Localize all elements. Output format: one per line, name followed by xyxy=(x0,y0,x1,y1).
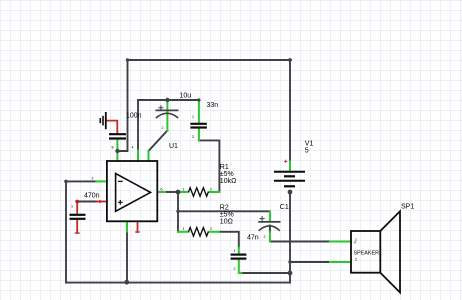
svg-text:1: 1 xyxy=(71,205,73,209)
svg-text:10Ω: 10Ω xyxy=(220,218,233,225)
svg-text:100n: 100n xyxy=(126,113,142,120)
svg-text:10u: 10u xyxy=(180,93,192,100)
svg-text:2: 2 xyxy=(92,177,94,181)
svg-text:SP1: SP1 xyxy=(401,204,414,211)
svg-text:6: 6 xyxy=(161,188,163,192)
svg-text:470n: 470n xyxy=(84,193,100,200)
svg-text:1: 1 xyxy=(183,188,185,192)
svg-text:V1: V1 xyxy=(305,140,314,147)
svg-text:33n: 33n xyxy=(207,102,219,109)
svg-text:2: 2 xyxy=(355,258,357,262)
svg-text:2: 2 xyxy=(264,235,266,239)
svg-text:1: 1 xyxy=(192,115,194,119)
svg-text:U1: U1 xyxy=(169,143,178,150)
svg-text:R1: R1 xyxy=(220,164,229,171)
svg-text:10kΩ: 10kΩ xyxy=(220,178,237,185)
svg-text:2: 2 xyxy=(234,267,236,271)
svg-text:47n: 47n xyxy=(247,235,259,242)
svg-text:4: 4 xyxy=(132,146,134,150)
svg-text:2: 2 xyxy=(192,135,194,139)
svg-text:2: 2 xyxy=(210,227,212,231)
svg-text:1: 1 xyxy=(234,249,236,253)
svg-text:1: 1 xyxy=(183,227,185,231)
svg-text:C1: C1 xyxy=(280,204,289,211)
svg-text:5: 5 xyxy=(305,147,309,154)
svg-text:SPEAKER: SPEAKER xyxy=(354,251,380,257)
svg-text:8: 8 xyxy=(112,146,114,150)
svg-text:R2: R2 xyxy=(220,205,229,212)
svg-text:±5%: ±5% xyxy=(220,171,234,178)
svg-text:1: 1 xyxy=(355,238,357,242)
svg-text:2: 2 xyxy=(162,126,164,130)
svg-text:2: 2 xyxy=(210,188,212,192)
